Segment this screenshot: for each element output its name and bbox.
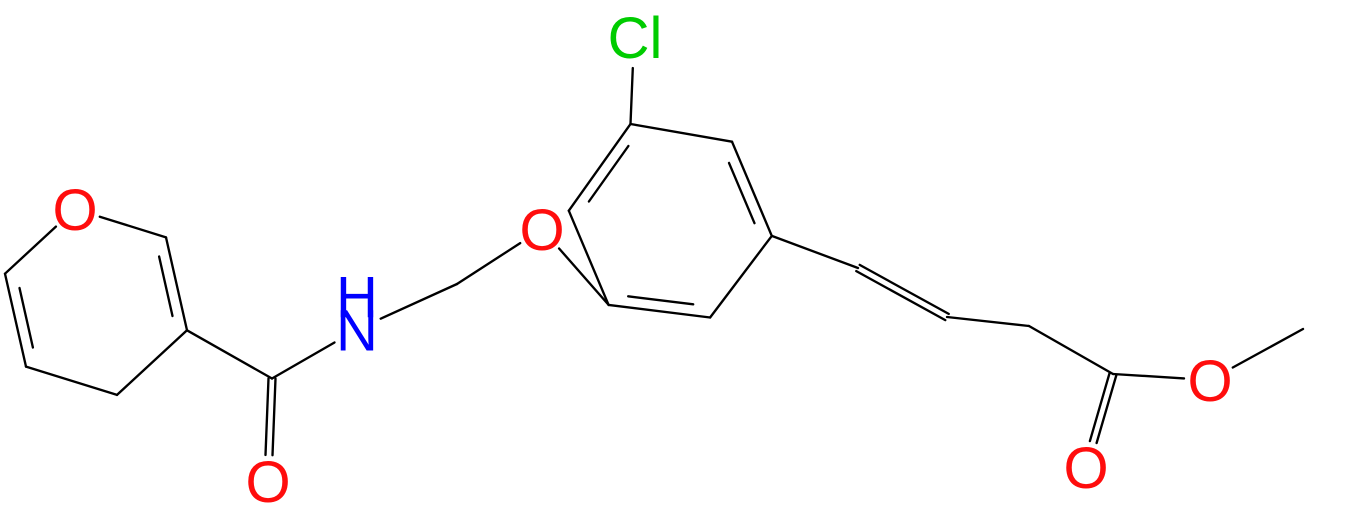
bond O(ester)-CH3 — [1233, 329, 1303, 368]
double bond C2=C3 (pyran ring) — [166, 237, 187, 330]
bond N-CH2 — [381, 284, 457, 319]
aromatic bond C5a-C6a (benzene) — [569, 211, 609, 305]
bond C6-O1 (pyran ring) — [5, 227, 56, 274]
svg-text:O: O — [1187, 349, 1232, 414]
aromatic bond C1a-C2a (benzene) — [631, 124, 733, 142]
svg-text:O: O — [1063, 436, 1108, 501]
bond C3-C4 (pyran ring) — [117, 330, 187, 395]
bond O1-C2 (pyran ring) — [100, 217, 166, 238]
svg-text:O: O — [245, 450, 290, 515]
svg-text:O: O — [519, 198, 564, 263]
bond C(amide)-N — [272, 343, 335, 379]
double bond C5=C6 (pyran ring) — [5, 274, 26, 367]
double bond C=O (amide carbonyl) — [266, 378, 269, 455]
aromatic bond C3a-C4a (benzene) — [710, 236, 772, 318]
aromatic bond C6a=C1a (benzene) — [569, 124, 631, 211]
bond CH2-O(ether) — [457, 243, 520, 284]
bond C1a-Cl — [631, 68, 633, 124]
aromatic bond C4a=C5a (benzene) — [609, 305, 711, 318]
bond C3-C(amide) — [187, 330, 272, 378]
bond C4-C5 (pyran ring) — [26, 367, 117, 395]
double bond C=O (ester carbonyl) — [1090, 373, 1110, 441]
svg-text:Cl: Cl — [608, 6, 663, 71]
bond C3a-CH (chain) — [772, 236, 858, 268]
aromatic bond C2a=C3a (benzene) — [732, 142, 772, 236]
double bond CH=CH (chain) — [856, 271, 945, 320]
bond C(ester)-O(ester) — [1113, 374, 1184, 378]
bond CH2-C(ester) — [1029, 326, 1113, 374]
bond O(ether)-ring — [559, 249, 609, 305]
bond CH-CH2 (chain) — [947, 317, 1029, 326]
svg-text:O: O — [52, 178, 97, 243]
svg-text:H: H — [336, 265, 378, 330]
